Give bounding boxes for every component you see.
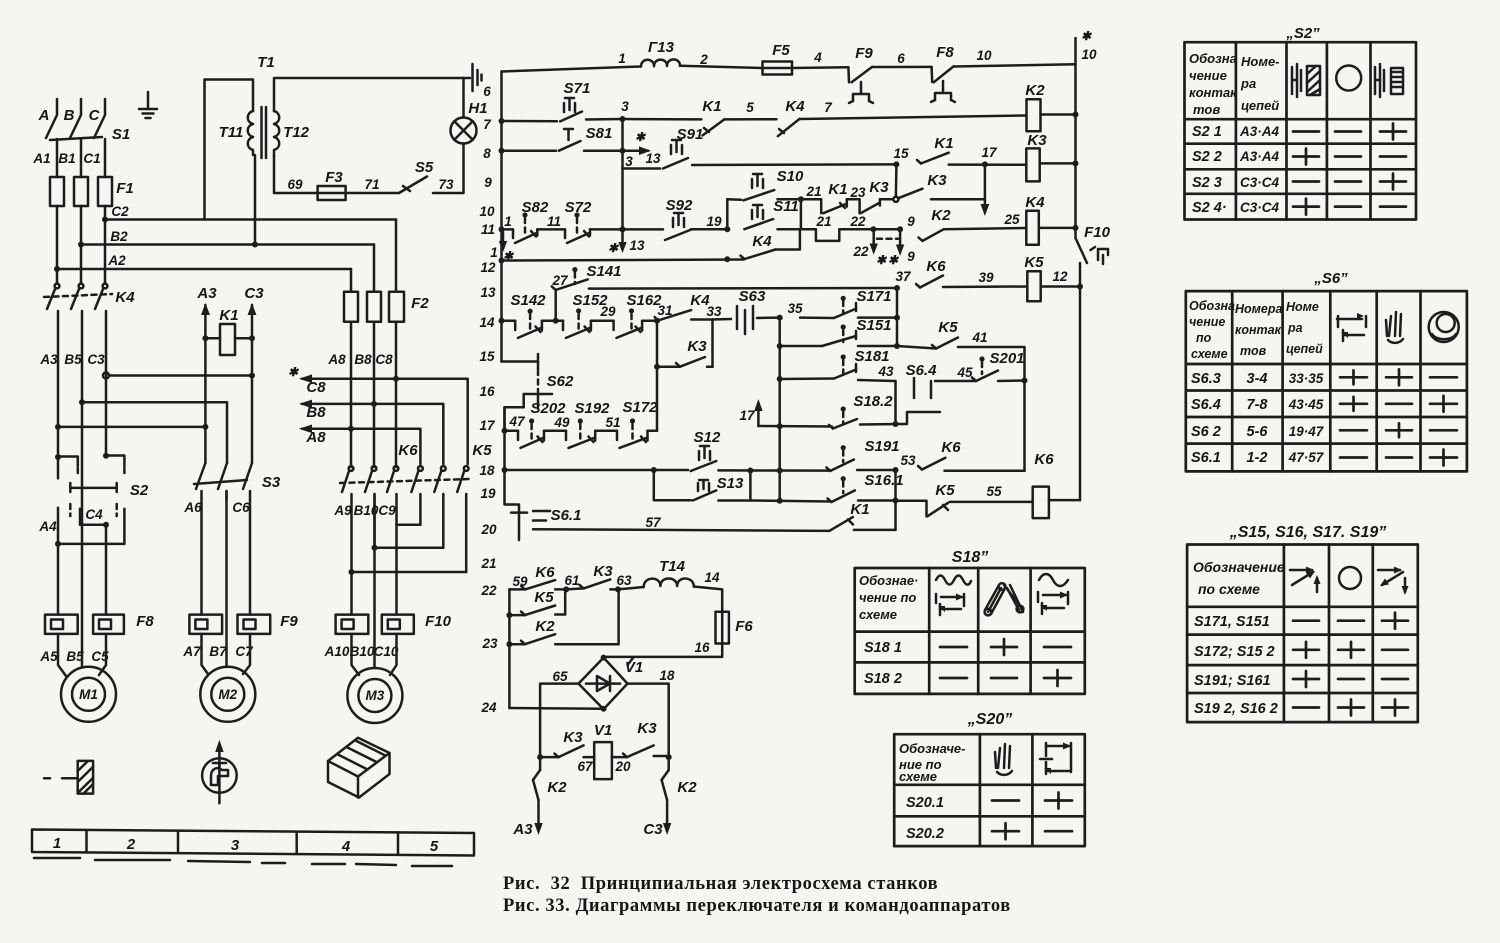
svg-text:C1: C1 bbox=[83, 151, 100, 166]
svg-text:S16.1: S16.1 bbox=[864, 472, 903, 489]
svg-text:1: 1 bbox=[53, 835, 61, 852]
svg-text:M2: M2 bbox=[218, 687, 237, 702]
coil K3 bbox=[1026, 148, 1039, 181]
svg-text:F1: F1 bbox=[116, 180, 134, 197]
wire to 22 bbox=[839, 228, 873, 231]
svg-text:K5: K5 bbox=[935, 482, 955, 499]
svg-text:65: 65 bbox=[552, 669, 568, 684]
node rung8 bbox=[620, 148, 626, 154]
wire S191 to 53 bbox=[857, 469, 895, 472]
table S2 rows col2 bbox=[1239, 124, 1280, 215]
svg-text:S71: S71 bbox=[564, 80, 591, 97]
svg-text:Рис. 33. Диаграммы переключате: Рис. 33. Диаграммы переключателя и коман… bbox=[503, 896, 1011, 916]
svg-text:S171: S171 bbox=[856, 288, 891, 305]
T12 winding bbox=[274, 111, 279, 156]
wire T14 to F6 bbox=[694, 587, 722, 612]
svg-text:5-6: 5-6 bbox=[1247, 424, 1269, 440]
rail node rowK5 bbox=[1077, 284, 1083, 290]
rail node 7 bbox=[499, 118, 505, 124]
table S15 icon circle bbox=[1339, 567, 1361, 589]
table S18 icon pliers bbox=[985, 583, 1024, 615]
svg-text:B: B bbox=[64, 107, 75, 124]
svg-text:C8: C8 bbox=[375, 352, 393, 367]
wire F9 to F8 bbox=[872, 66, 932, 69]
wire S92 to node19 bbox=[691, 228, 727, 231]
svg-text:1-2: 1-2 bbox=[1247, 450, 1268, 466]
svg-text:S82: S82 bbox=[522, 199, 549, 216]
svg-text:53: 53 bbox=[900, 453, 916, 468]
wire to K5 coil bbox=[943, 285, 1027, 288]
S3 tie bar bbox=[194, 480, 247, 484]
svg-text:6: 6 bbox=[483, 84, 491, 99]
svg-text:Обозна: Обозна bbox=[1189, 299, 1235, 313]
wire A9 to F10 bbox=[350, 572, 353, 615]
svg-text:A6: A6 bbox=[183, 500, 202, 515]
K5 pole 1 bbox=[411, 466, 422, 525]
U dip 21-22 bbox=[816, 229, 839, 241]
pushbutton S91 bbox=[663, 140, 688, 169]
svg-text:17: 17 bbox=[739, 408, 756, 423]
svg-text:20: 20 bbox=[614, 759, 631, 774]
node B8 row bbox=[371, 401, 377, 407]
wire S91 to node15 bbox=[692, 163, 896, 166]
svg-text:13: 13 bbox=[480, 285, 496, 300]
svg-text:71: 71 bbox=[364, 177, 379, 192]
contact K5 rung19 bbox=[927, 503, 948, 517]
svg-text:A3·A4: A3·A4 bbox=[1239, 149, 1280, 164]
coil K4 bbox=[1026, 211, 1039, 245]
wire F9A to M2 bbox=[202, 634, 209, 674]
svg-text:схеме: схеме bbox=[1191, 347, 1228, 361]
wire K1 to K4 bbox=[724, 118, 776, 121]
node v35 rung18 bbox=[777, 468, 783, 474]
node 37 bbox=[894, 285, 900, 291]
svg-text:13: 13 bbox=[645, 151, 661, 166]
table S20 rows col1 bbox=[906, 795, 944, 842]
table S2 rows col1 bbox=[1192, 124, 1227, 216]
node 19 bbox=[724, 226, 730, 232]
contact S171 bbox=[800, 303, 856, 318]
S2 pole C hook dash bbox=[123, 468, 126, 477]
S171 cam stem bbox=[841, 296, 846, 314]
svg-text:C: C bbox=[89, 107, 101, 124]
bus A2 bbox=[57, 268, 351, 271]
svg-text:21: 21 bbox=[480, 556, 496, 571]
contact K6 rung18 bbox=[918, 458, 945, 470]
wire K4 to K2 coil bbox=[799, 116, 1026, 120]
svg-text:K3: K3 bbox=[563, 729, 583, 746]
svg-text:K5: K5 bbox=[472, 442, 492, 459]
svg-text:47: 47 bbox=[508, 414, 526, 429]
table S18 marks r2 bbox=[940, 670, 1071, 686]
svg-text:Номе-: Номе- bbox=[1241, 54, 1280, 69]
bus C to C3 vertical bbox=[109, 374, 252, 377]
arrow continuation rung8 bbox=[623, 146, 652, 155]
svg-text:по схеме: по схеме bbox=[1198, 581, 1260, 597]
svg-text:F5: F5 bbox=[772, 42, 790, 59]
table S2 header col1 bbox=[1189, 51, 1238, 117]
node C2 bbox=[102, 217, 108, 223]
contact K5 row15 bbox=[897, 338, 958, 349]
contactor K4 pole C bbox=[95, 284, 107, 455]
contact S201 bbox=[972, 371, 998, 382]
T11 bottom wire to B2 bbox=[254, 155, 257, 245]
svg-text:Обозначе-: Обозначе- bbox=[899, 741, 965, 756]
svg-text:16: 16 bbox=[479, 384, 495, 399]
svg-text:1: 1 bbox=[504, 214, 512, 229]
svg-text:S13: S13 bbox=[717, 475, 744, 492]
node C8 row bbox=[393, 376, 399, 382]
rail node 8 bbox=[499, 148, 505, 154]
svg-text:55: 55 bbox=[986, 484, 1002, 499]
svg-text:C3·C4: C3·C4 bbox=[1240, 175, 1280, 190]
wire S192-S172 bbox=[595, 429, 617, 432]
svg-text:B8: B8 bbox=[306, 404, 326, 421]
wire S202-S192 bbox=[544, 429, 566, 432]
table S6 icon chuck bbox=[1429, 312, 1459, 342]
wire F5 to F9c bbox=[792, 66, 848, 69]
svg-text:22: 22 bbox=[849, 214, 866, 229]
svg-text:S151: S151 bbox=[856, 317, 891, 334]
svg-text:9: 9 bbox=[907, 214, 915, 229]
pushbutton S92 bbox=[665, 213, 691, 240]
node 41-45 bbox=[1022, 378, 1028, 384]
lamp H1 bbox=[451, 118, 477, 144]
contact S162 bbox=[614, 321, 643, 338]
switch S1 blade A bbox=[46, 115, 57, 138]
arrow down 9 bbox=[896, 232, 904, 256]
lamp top wire bbox=[462, 78, 465, 118]
svg-text:43: 43 bbox=[877, 364, 894, 379]
table S15 frame bbox=[1187, 545, 1418, 723]
winding T14 bbox=[644, 579, 694, 588]
svg-text:S91: S91 bbox=[677, 126, 704, 143]
bus C2 bbox=[105, 218, 396, 221]
svg-text:9: 9 bbox=[907, 249, 915, 264]
table S18 icon sine loop bbox=[1038, 574, 1068, 614]
svg-text:K1: K1 bbox=[850, 501, 869, 518]
S64 tick 2 bbox=[930, 381, 933, 398]
svg-text:T14: T14 bbox=[659, 558, 686, 575]
table S2 marks r4 bbox=[1293, 199, 1406, 215]
svg-text:S92: S92 bbox=[666, 197, 693, 214]
pushbutton S10 bbox=[743, 174, 774, 200]
wire A to F8 bbox=[57, 544, 60, 615]
coil K2 bbox=[1027, 99, 1041, 131]
top rung wire bbox=[502, 67, 642, 72]
svg-text:тов: тов bbox=[1193, 102, 1220, 117]
svg-text:S142: S142 bbox=[510, 292, 546, 309]
wire node21 vertical bbox=[800, 199, 803, 229]
K5 out jog A9 bbox=[352, 571, 467, 574]
table S2 marks r2 bbox=[1293, 149, 1406, 165]
coil K2 right wire bbox=[1041, 113, 1076, 116]
svg-text:57: 57 bbox=[645, 515, 662, 530]
rung S182 wire bbox=[758, 425, 832, 428]
vertical 37 column bbox=[896, 288, 899, 346]
arrow A3 down bbox=[534, 800, 542, 835]
svg-text:K1: K1 bbox=[219, 307, 238, 324]
right rail top tick bbox=[1074, 38, 1077, 64]
rung8 from rail bbox=[502, 149, 557, 152]
svg-text:K6: K6 bbox=[398, 442, 418, 459]
contact K6 rung13 bbox=[916, 276, 943, 288]
svg-text:22: 22 bbox=[480, 583, 497, 598]
wire node21 right bbox=[801, 228, 816, 231]
table S15 marks r1 bbox=[1293, 613, 1408, 629]
wire S10 to node21 bbox=[778, 198, 801, 201]
S2 tie dashes bbox=[70, 504, 116, 516]
svg-text:A7: A7 bbox=[182, 644, 202, 659]
svg-text:F10: F10 bbox=[425, 613, 452, 630]
wire F8C to M1 bbox=[99, 634, 106, 675]
svg-text:67: 67 bbox=[577, 759, 594, 774]
arrow row C8 bbox=[299, 374, 468, 464]
switch S5 tick bbox=[403, 186, 410, 191]
svg-text:чение: чение bbox=[1189, 315, 1225, 329]
wire S181 to jog bbox=[858, 380, 896, 381]
svg-text:S18.2: S18.2 bbox=[853, 393, 893, 410]
contact S181 row bbox=[780, 364, 856, 379]
svg-text:S63: S63 bbox=[739, 288, 766, 305]
node 63 bbox=[615, 586, 621, 592]
svg-text:51: 51 bbox=[605, 415, 620, 430]
node31 v down bbox=[656, 321, 659, 431]
ground symbol bbox=[139, 92, 157, 118]
svg-text:S2 4·: S2 4· bbox=[1192, 200, 1227, 216]
svg-text:1: 1 bbox=[490, 245, 498, 260]
contactor K4 pole A bbox=[47, 284, 59, 455]
svg-text:13: 13 bbox=[629, 238, 645, 253]
rail node 14 bbox=[499, 318, 505, 324]
svg-text:цепей: цепей bbox=[1286, 342, 1323, 356]
S13 branch down bbox=[654, 470, 691, 500]
contact S72 bbox=[565, 229, 590, 243]
node K1 left bbox=[202, 335, 208, 341]
left vertical 22-24 bbox=[508, 589, 511, 708]
fuse F2 pole B8 bbox=[367, 292, 381, 322]
node on B bbox=[79, 399, 85, 405]
svg-text:V1: V1 bbox=[625, 659, 643, 676]
svg-text:49: 49 bbox=[553, 415, 570, 430]
table S2 icon dashed spool bbox=[1391, 68, 1403, 94]
rail node 11 bbox=[499, 226, 505, 232]
svg-text:S201: S201 bbox=[989, 350, 1024, 367]
table S20 icon hand bbox=[995, 744, 1012, 775]
svg-text:S1: S1 bbox=[112, 126, 130, 143]
svg-text:F8: F8 bbox=[136, 613, 154, 630]
arrow down 13 bbox=[618, 232, 626, 253]
node on C3 vertical bbox=[249, 373, 255, 379]
S63 connector ticks bbox=[737, 306, 753, 334]
vertical 41 down bbox=[1023, 381, 1026, 471]
node 22 bbox=[870, 226, 876, 232]
svg-text:K2: K2 bbox=[1025, 82, 1045, 99]
svg-text:C10: C10 bbox=[374, 644, 399, 659]
wire to node17 bbox=[949, 163, 1027, 166]
table S15 marks r2 bbox=[1293, 642, 1408, 658]
S62 cross bbox=[524, 393, 552, 396]
svg-text:K4: K4 bbox=[785, 98, 805, 115]
svg-text:27: 27 bbox=[551, 273, 569, 288]
pushbutton S11 bbox=[744, 205, 773, 229]
table S2 icon hatched spool bbox=[1307, 66, 1320, 95]
branch to S91 bbox=[623, 167, 661, 170]
contactor S3 pole B bbox=[218, 463, 227, 500]
svg-text:A8: A8 bbox=[305, 429, 326, 446]
contact K3 23-x bbox=[847, 199, 880, 213]
svg-text:B10: B10 bbox=[350, 644, 375, 659]
fuse F2 pole C8 bbox=[389, 292, 404, 322]
S2 tie bar bbox=[70, 483, 116, 492]
S151 cam stem bbox=[841, 324, 846, 342]
wire S152-S162 bbox=[591, 320, 614, 323]
svg-text:Номе: Номе bbox=[1286, 300, 1319, 314]
contact K3 rung22 bbox=[566, 579, 610, 589]
svg-text:Номера: Номера bbox=[1235, 302, 1282, 316]
svg-text:✱: ✱ bbox=[876, 253, 888, 267]
rung14 bbox=[502, 320, 516, 323]
contact S152 bbox=[563, 321, 591, 338]
contact S161 bbox=[828, 490, 855, 502]
S161 cam stem bbox=[841, 476, 846, 493]
rail node row9 bbox=[1073, 160, 1079, 166]
svg-text:C8: C8 bbox=[306, 379, 326, 396]
arrow row A8 bbox=[299, 425, 420, 465]
wire K3 to node63 bbox=[610, 588, 618, 591]
svg-text:S5: S5 bbox=[415, 159, 434, 176]
rail node 18 bbox=[502, 467, 508, 473]
svg-text:61: 61 bbox=[564, 573, 579, 588]
K5 out jog C9 bbox=[397, 524, 421, 527]
S181 cam stem bbox=[841, 354, 846, 374]
svg-text:контак: контак bbox=[1235, 323, 1282, 337]
svg-text:S12: S12 bbox=[694, 429, 721, 446]
svg-text:K2: K2 bbox=[677, 779, 697, 796]
svg-text:S191: S191 bbox=[864, 438, 899, 455]
S2 C4 bracket bbox=[80, 509, 106, 525]
svg-text:18: 18 bbox=[659, 668, 675, 683]
svg-text:K3: K3 bbox=[593, 563, 613, 580]
node 53 bbox=[893, 467, 899, 473]
rail node 17 bbox=[502, 428, 508, 434]
contact S141 bbox=[552, 279, 588, 290]
svg-text:S6.1: S6.1 bbox=[1191, 450, 1221, 466]
svg-text:S191; S161: S191; S161 bbox=[1194, 673, 1271, 689]
svg-text:„S15, S16, S17. S19”: „S15, S16, S17. S19” bbox=[1229, 524, 1387, 541]
svg-text:A: A bbox=[38, 107, 50, 124]
svg-text:33·35: 33·35 bbox=[1289, 371, 1324, 386]
node 31 bbox=[654, 318, 660, 324]
pushbutton S12 bbox=[691, 446, 717, 471]
vertical node3 down bbox=[621, 119, 624, 229]
svg-text:S2 1: S2 1 bbox=[1192, 124, 1222, 140]
svg-text:39: 39 bbox=[978, 270, 994, 285]
svg-text:Обознае·: Обознае· bbox=[859, 573, 918, 588]
table S6 header col3 bbox=[1286, 300, 1323, 356]
node 17 bbox=[982, 161, 988, 167]
wire S5 to lamp bbox=[433, 144, 464, 194]
svg-text:69: 69 bbox=[287, 177, 303, 192]
icon pump arrow bbox=[215, 740, 223, 804]
svg-text:K1: K1 bbox=[702, 98, 721, 115]
S62 lower tick bbox=[537, 394, 540, 407]
svg-text:7: 7 bbox=[483, 117, 492, 132]
thermal contact F8 bbox=[931, 67, 955, 103]
S201 cam stem bbox=[979, 356, 984, 374]
table S20 frame bbox=[894, 734, 1085, 846]
svg-text:C9: C9 bbox=[378, 503, 396, 518]
contact K3 blade up bbox=[898, 189, 923, 199]
contact S182 bbox=[829, 419, 857, 429]
S162 cam stem bbox=[629, 308, 634, 331]
contact K1 rung20 bbox=[829, 517, 853, 531]
svg-text:9: 9 bbox=[484, 175, 492, 190]
svg-text:11: 11 bbox=[481, 222, 495, 237]
svg-text:M3: M3 bbox=[366, 688, 385, 703]
coil K5 right wire bbox=[1041, 285, 1080, 288]
svg-text:B5: B5 bbox=[64, 352, 82, 367]
node 35d bbox=[777, 423, 783, 429]
svg-text:45: 45 bbox=[956, 365, 973, 380]
vertical 33 down bbox=[711, 320, 714, 367]
svg-text:K6: K6 bbox=[1034, 451, 1054, 468]
table S2 icon bobbin bbox=[1292, 64, 1301, 97]
svg-text:F9: F9 bbox=[855, 45, 873, 62]
left rail bbox=[500, 72, 503, 362]
node v53 rung19 bbox=[893, 498, 899, 504]
node 35c bbox=[777, 376, 783, 382]
wire F10A to M3 bbox=[352, 634, 360, 675]
table S15 marks r4 bbox=[1293, 700, 1408, 716]
svg-text:C3·C4: C3·C4 bbox=[1240, 200, 1280, 215]
svg-text:S62: S62 bbox=[547, 373, 574, 390]
svg-text:K6: K6 bbox=[941, 439, 961, 456]
svg-text:K2: K2 bbox=[535, 618, 555, 635]
svg-text:29: 29 bbox=[599, 304, 616, 319]
node19 vertical bbox=[726, 199, 729, 229]
S2 pole A hook dash bbox=[77, 468, 80, 477]
svg-text:F3: F3 bbox=[325, 169, 343, 186]
fuse F1 pole A bbox=[50, 177, 64, 206]
S141 cam stem bbox=[572, 267, 577, 284]
bus A to A3 vertical bbox=[58, 426, 205, 429]
svg-text:24: 24 bbox=[480, 700, 497, 715]
rung19 wire bbox=[750, 501, 831, 502]
node circle on C bbox=[103, 373, 109, 379]
contact K4 rung14 bbox=[655, 310, 692, 320]
wire B2 to F2 bbox=[373, 245, 376, 292]
svg-text:S3: S3 bbox=[262, 474, 281, 491]
thermal contact F9 bbox=[848, 67, 873, 103]
wire F2 B8 down bbox=[373, 322, 376, 467]
svg-text:3: 3 bbox=[621, 99, 629, 114]
bridge right out bbox=[628, 684, 669, 758]
fuse F3 bbox=[318, 186, 346, 200]
contact S172 bbox=[617, 431, 648, 448]
svg-text:K3: K3 bbox=[927, 172, 947, 189]
wire K3r to node bbox=[654, 755, 669, 758]
wire 41 bbox=[958, 347, 1025, 381]
contact K6 rung22 bbox=[509, 580, 555, 589]
K5 out jog B10 bbox=[375, 546, 444, 549]
svg-text:14: 14 bbox=[479, 315, 495, 330]
scale bar outline bbox=[32, 830, 474, 856]
svg-text:7-8: 7-8 bbox=[1247, 397, 1269, 413]
S61 bars bbox=[533, 511, 550, 521]
T12 bottom wire bbox=[274, 156, 318, 193]
svg-text:K1: K1 bbox=[828, 181, 847, 198]
